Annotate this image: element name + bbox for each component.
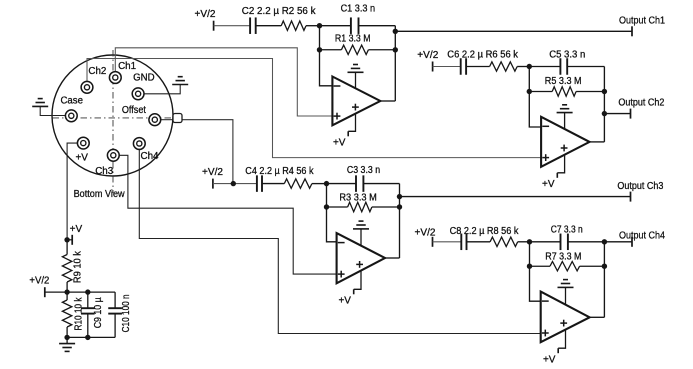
ground symbol at GND pin [172,77,188,85]
terminal +V/2 of divider [45,287,67,297]
resistor R6 56k [490,62,518,71]
connector horizontal centerline (dash-dot) [53,117,173,119]
wire C1 to right rail stage 1 [359,25,396,27]
wire node to C1 [320,25,351,27]
pin Ch4 [133,138,145,150]
svg-text:R9 10 k: R9 10 k [73,250,84,283]
capacitor C10 100n [108,292,122,337]
svg-text:Bottom View: Bottom View [74,189,126,200]
connector body circle (Bottom View) [52,55,173,176]
+V supply connection of U3 [338,271,361,307]
node input stage 2 [527,64,532,69]
svg-text:C8 2.2 µ R8 56 k: C8 2.2 µ R8 56 k [450,226,520,237]
wire Ch2 pin to op-amp U2 +input [87,59,541,158]
svg-text:R1 3.3 M: R1 3.3 M [335,34,371,45]
svg-text:C2 2.2 µ R2 56 k: C2 2.2 µ R2 56 k [242,6,317,17]
resistor R3 3.3M feedback [327,202,400,211]
wire divider top to C9/C10 [67,291,115,293]
svg-text:Offset: Offset [122,105,146,116]
svg-text:Ch3: Ch3 [95,166,113,177]
wire C8 to R8 [467,241,491,243]
ground symbol above U1 [348,65,364,89]
terminal +V/2 input of stage 1 [213,21,215,31]
resistor R9 10k [62,240,71,292]
svg-text:+V/2: +V/2 [417,50,438,61]
svg-text:+V: +V [542,179,555,190]
pin GND [132,88,144,100]
svg-text:+V/2: +V/2 [29,276,49,287]
terminal +V/2 input of stage 2 [432,62,434,72]
wire op-amp U4 output to rail [590,316,605,318]
op-amp U2 [541,117,589,167]
wire divider bottom [67,336,115,338]
op-amp U4 [541,292,590,343]
wire C7 to right rail stage 4 [568,241,605,243]
svg-text:C5 3.3 n: C5 3.3 n [549,50,585,61]
op-amp U3 [337,233,385,283]
node feedback right stage 1 [393,47,398,52]
svg-text:R5 3.3 M: R5 3.3 M [545,76,582,87]
svg-text:Output Ch1: Output Ch1 [619,16,665,27]
svg-text:+V: +V [75,153,88,164]
svg-text:+V: +V [338,296,351,307]
wire C6 to R6 [466,66,490,68]
wire +V pin to divider rail [67,143,83,240]
pin Ch3 [107,149,119,161]
node C9 top [85,289,90,294]
node input stage 3 [324,181,329,186]
svg-text:+V/2: +V/2 [195,9,216,20]
svg-text:Case: Case [60,96,83,107]
svg-text:C9 10 µ: C9 10 µ [93,297,104,328]
svg-text:+V/2: +V/2 [202,167,223,178]
node feedback left stage 3 [324,204,329,209]
node feedback right stage 3 [397,204,402,209]
right feedback rail stage 2 [603,67,605,142]
ground symbol above U3 [353,221,369,246]
svg-text:C1 3.3 n: C1 3.3 n [341,3,376,14]
+V supply connection of U2 [542,155,565,190]
capacitor C1 3.3n [350,17,352,34]
capacitor C3 3.3n [355,175,357,192]
node C9 bottom [85,335,90,340]
svg-text:+V: +V [333,138,346,149]
left rail to inverting input stage 3 [327,184,337,242]
wire R6 to input node stage 2 [517,66,529,68]
node output stage 3 [397,194,402,199]
svg-text:R3 3.3 M: R3 3.3 M [339,192,376,203]
capacitor C2 2.2u [249,17,251,34]
ground symbol above U2 [557,105,573,129]
wire +V/2 to C8 [433,241,462,243]
wire GND pin to ground [138,85,180,94]
+V supply connection of U4 [543,330,566,366]
wire +V/2 to C6 [433,66,461,68]
wire node to C3 [327,183,357,185]
svg-text:Ch2: Ch2 [88,66,106,77]
resistor R4 56k [284,179,312,188]
ground symbol of divider [59,337,75,351]
node output stage 2 [602,111,607,116]
svg-text:+V: +V [70,224,83,235]
resistor R8 56k [490,237,518,246]
terminal +V/2 input of stage 4 [432,237,434,247]
left rail to inverting input stage 1 [320,26,333,86]
svg-text:Output Ch2: Output Ch2 [618,97,664,108]
wire C2 to R2 [256,25,282,27]
terminal +V/2 input of stage 3 [212,179,214,189]
right feedback rail stage 3 [399,184,401,258]
resistor R1 3.3M feedback [320,45,396,54]
wire R8 to input node stage 4 [518,241,530,243]
node +V/2 with Offset stage 3 [231,181,236,186]
node feedback left stage 1 [317,47,322,52]
wire +V/2 to C4 [213,183,257,185]
svg-text:+V/2: +V/2 [415,227,436,238]
node +V/2 tap [64,289,69,294]
output wire stage 2 [604,109,630,119]
pin +V [77,137,89,149]
pin Ch2 [81,81,93,93]
wire node to C7 [530,241,561,243]
right feedback rail stage 1 [394,26,396,101]
resistor R5 3.3M feedback [529,87,604,96]
wire C3 to right rail stage 3 [363,183,399,185]
capacitor C7 3.3n [560,234,562,251]
terminal +V of divider [67,235,72,245]
wire R4 to input node stage 3 [312,183,327,185]
ground symbol above U4 [558,280,574,305]
node divider ground [64,335,69,340]
node output stage 4 [602,239,607,244]
svg-text:C7 3.3 n: C7 3.3 n [551,225,583,236]
wire node to C5 [529,66,560,68]
node feedback left stage 4 [527,264,532,269]
svg-text:C3 3.3 n: C3 3.3 n [347,165,380,176]
capacitor C5 3.3n [559,58,561,75]
ground symbol at Case pin [32,99,48,107]
output wire stage 1 [395,26,632,36]
resistor R2 56k [281,21,306,30]
connector vertical centerline (dash-dot) [112,50,114,193]
right feedback rail stage 4 [603,242,605,317]
wire op-amp U2 output to rail [590,141,605,143]
node +V rail [64,237,69,242]
Offset connector key square [173,114,182,123]
svg-text:R7 3.3 M: R7 3.3 M [545,252,581,263]
wire op-amp U1 output to rail [380,100,395,102]
wire Case pin to chassis ground [40,106,71,115]
wire Ch3 pin to op-amp U3 +input [113,155,336,274]
wire Ch4 pin to op-amp U4 +input [139,144,540,334]
left rail to inverting input stage 4 [530,242,541,301]
svg-text:Ch4: Ch4 [141,151,159,162]
svg-text:Ch1: Ch1 [118,61,136,72]
wire op-amp U3 output to rail [385,257,400,259]
op-amp U1 [332,77,380,126]
pin Case [65,110,77,122]
pin Ch1 [109,72,121,84]
pin Offset [149,114,161,126]
wire +V/2 to C2 [214,25,251,27]
svg-text:Output Ch4: Output Ch4 [619,231,665,242]
node feedback right stage 4 [602,264,607,269]
left rail to inverting input stage 2 [529,67,541,128]
capacitor C4 2.2u [256,175,258,192]
output wire stage 3 [400,192,631,202]
capacitor C8 2.2u [460,234,462,251]
svg-text:C6 2.2 µ R6 56 k: C6 2.2 µ R6 56 k [447,50,519,61]
+V supply connection of U1 [333,114,356,149]
node input stage 1 [317,23,322,28]
svg-text:Output Ch3: Output Ch3 [617,181,663,192]
wire C4 to R4 [262,183,284,185]
wire C5 to right rail stage 2 [567,66,604,68]
capacitor C9 10u [81,292,95,337]
svg-text:C4 2.2 µ R4 56 k: C4 2.2 µ R4 56 k [245,166,314,177]
wire Ch1 pin to op-amp U1 +input [115,48,332,116]
wire R2 to input node stage 1 [306,25,320,27]
capacitor C6 2.2u [460,58,462,75]
svg-text:GND: GND [133,73,155,84]
node output stage 1 [393,29,398,34]
svg-text:C10 100 n: C10 100 n [121,294,132,332]
resistor R7 3.3M feedback [530,262,605,271]
node input stage 4 [527,239,532,244]
output wire stage 4 [604,237,632,247]
svg-text:+V: +V [543,354,556,365]
resistor R10 10k [62,292,71,337]
wire Offset pin to +V/2 node [155,120,233,184]
node feedback left stage 2 [527,89,532,94]
node feedback right stage 2 [602,89,607,94]
